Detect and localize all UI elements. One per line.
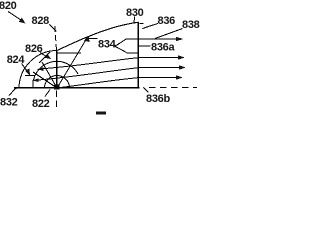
stub mid-left xyxy=(25,75,35,77)
wavefront arc r24 xyxy=(33,61,78,88)
baseline solid xyxy=(14,87,140,89)
leader 826 with arrowhead xyxy=(40,53,51,60)
svg-text:820: 820 xyxy=(0,0,17,12)
bottom bar mark xyxy=(96,112,106,115)
leader 836 xyxy=(142,24,158,29)
stroke crossing 826 leader xyxy=(39,52,50,63)
dash right of wavefront top xyxy=(139,23,143,25)
leader 836b xyxy=(144,88,149,93)
ray b (to right arrow) xyxy=(32,65,186,82)
leader 822 xyxy=(45,90,50,97)
leader 828 xyxy=(50,25,57,32)
ray up along axis xyxy=(56,51,58,89)
leader 830 xyxy=(133,17,136,24)
leader 836a xyxy=(139,45,151,47)
svg-text:836a: 836a xyxy=(151,41,175,53)
ray a (to right arrow) xyxy=(37,55,185,71)
leader 832 xyxy=(9,88,17,96)
leader 838 xyxy=(155,29,183,39)
wavefront arc r39 left xyxy=(19,51,57,88)
wavefront dome r12.5 xyxy=(45,76,70,89)
source point 822 xyxy=(54,85,60,90)
stub left of 834 xyxy=(86,38,98,40)
wavefront curve 830 xyxy=(57,22,139,50)
leader 824 with arrowhead xyxy=(22,64,31,76)
axis 828 dashed vertical lower xyxy=(56,91,58,111)
bracket 834 xyxy=(115,39,127,53)
ray c (to right arrow) xyxy=(57,75,183,88)
svg-text:826: 826 xyxy=(25,43,43,55)
planar wavefront vertical line xyxy=(137,22,139,88)
svg-text:832: 832 xyxy=(0,97,18,109)
svg-text:836: 836 xyxy=(158,15,176,27)
svg-text:834: 834 xyxy=(98,39,117,51)
ray up-left 34deg xyxy=(33,72,57,88)
svg-text:828: 828 xyxy=(32,15,50,27)
ray top (to right arrow) xyxy=(127,37,184,41)
baseline dashed right xyxy=(149,86,197,88)
ray up-left 60deg xyxy=(42,62,57,88)
segment y53 to wavefront xyxy=(57,52,81,54)
axis 828 dashed vertical upper xyxy=(55,26,57,52)
svg-text:836b: 836b xyxy=(146,93,170,105)
segment y53 right part xyxy=(127,52,139,54)
svg-text:838: 838 xyxy=(182,19,200,31)
arrow for 820 xyxy=(8,12,26,24)
svg-text:822: 822 xyxy=(32,98,50,110)
steep ray with arrowhead xyxy=(57,36,90,89)
